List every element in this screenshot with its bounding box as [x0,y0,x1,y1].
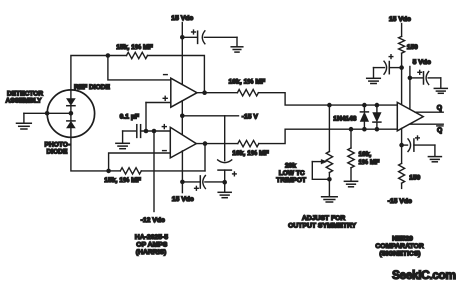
svg-text:DIODE: DIODE [47,148,68,155]
capacitor C6 (V+ bypass) [374,55,402,74]
wire R4 to node B [259,129,398,143]
svg-text:OUTPUT SYMMETRY: OUTPUT SYMMETRY [288,222,357,229]
svg-text:-12 Vdc: -12 Vdc [141,217,165,224]
node photodiode junction [106,169,111,174]
node +15V bottom rail [180,180,185,185]
diode D2 1N4148 (cathode down) [373,105,381,129]
svg-text:10k, 1% MF: 10k, 1% MF [229,79,266,86]
op-amp U2 HA-2625 [170,127,196,158]
svg-text:SeekIC.com: SeekIC.com [392,268,456,282]
resistor R4 10k 1% MF (U2 output) [238,140,259,146]
comparator U3 NE529 [397,102,423,130]
node -15V junction [180,114,185,119]
capacitor C2 0.1uF [123,125,171,138]
svg-text:Q: Q [437,105,442,112]
svg-text:(HARRIS): (HARRIS) [136,249,167,256]
svg-text:NE529: NE529 [392,235,413,242]
svg-text:(SIGNETICS): (SIGNETICS) [379,250,420,257]
node A trimpot junction [327,103,332,108]
wire U2 output [196,143,238,145]
node D2 top [375,103,380,108]
node B 10k junction [349,127,354,132]
svg-text:ADJUST FOR: ADJUST FOR [302,215,346,222]
svg-text:Q: Q [437,127,442,134]
trimpot R5 20k [312,152,332,180]
wire R7 to node [401,53,403,105]
svg-text:10k, 1% MF: 10k, 1% MF [232,150,269,157]
svg-text:20k: 20k [285,162,296,169]
wire output Q bar [410,123,444,125]
photo diode (bottom, cathode up) [67,115,75,137]
node 5V [408,76,413,81]
wire ground to detector center [24,112,71,114]
node comparator V+ [399,65,404,70]
node 15V rail [180,35,185,40]
node ref feedback junction [106,53,111,58]
wire node A down to trimpot [328,105,330,151]
svg-text:OP AMPS: OP AMPS [136,242,167,249]
resistor R8 150 [399,163,405,183]
wire junction up to inverting input [109,153,171,171]
ground (C7) [434,78,447,93]
svg-text:150: 150 [407,44,418,51]
svg-text:1% MF: 1% MF [359,159,380,166]
ground (C8) [428,145,441,162]
capacitor C1 (15V bypass) [182,30,237,44]
resistor R3 15k 1% MF (U2 feedback) [109,168,205,174]
node D2 bottom [375,127,380,132]
wire feedback up to U2 output [204,144,206,171]
U1 plus mark [163,96,167,100]
wire junction down to A1 inverting input [108,56,171,80]
U2 plus mark [162,125,166,129]
wire R2 to node A [258,93,397,105]
wire R1 to A1 output [148,56,205,91]
node bypass junction 1 [144,129,149,134]
wire output Q [415,111,443,113]
U2 minus mark [163,150,167,152]
node bypass junction 2 [152,129,157,134]
wire node B down to R6 [350,129,352,148]
node shared ground junction [222,180,227,185]
wire ref-diode node up and right [71,56,108,90]
ground (top 15V cap) [231,37,243,52]
svg-text:150: 150 [409,174,420,181]
svg-text:COMPARATOR: COMPARATOR [375,243,423,250]
resistor R7 150 [399,36,405,53]
resistor R6 10k 1% MF (to ground) [348,148,354,168]
diode D1 1N4148 (cathode up) [360,105,368,129]
resistor R1 15k 1% MF (A1 feedback) [127,52,148,58]
wire U3 bottom pin to -15V node [401,128,403,163]
node D1 top [362,103,367,108]
svg-text:REF DIODE: REF DIODE [74,84,111,91]
svg-text:15 Vdc: 15 Vdc [172,196,194,203]
svg-text:0.1 µF: 0.1 µF [120,114,139,121]
ground (0.1uF) [116,131,129,149]
node D1 bottom [362,127,367,132]
capacitor C8 (-15V bypass) [402,136,435,152]
node U2 output [203,141,208,146]
node U1 output [202,90,207,95]
capacitor C4 (15V bypass bottom) [182,176,224,191]
wire photodiode to U2 inverting input [71,137,109,171]
ground (bottom shared) [218,182,231,198]
svg-text:ASSEMBLY: ASSEMBLY [6,97,43,104]
ground (R6) [344,181,357,187]
ground (C6) [367,68,381,84]
svg-text:TRIMPOT: TRIMPOT [276,177,306,184]
label Q bar [437,126,443,134]
wire -15V down to C5 [224,116,226,161]
ground (trimpot) [322,179,338,202]
svg-text:LOW TC: LOW TC [279,170,305,177]
wire U1 output [197,92,237,94]
svg-text:-15 Vdc: -15 Vdc [388,198,412,205]
capacitor C7 (5V bypass) [410,70,441,84]
wire U1 non-inverting input [146,102,171,104]
wire 15V to R7 [401,24,403,37]
node detector center junction [69,111,74,116]
wire R8 to -15Vdc [401,183,403,188]
wire stub to 15Vdc label [181,182,183,193]
detector assembly circle [47,90,94,137]
node trimpot bottom [327,177,332,182]
svg-text:15 Vdc: 15 Vdc [171,15,193,22]
svg-text:1N4148: 1N4148 [333,116,356,123]
wire +input down to bypass node [145,103,147,130]
U1 minus mark [164,74,168,76]
wire U1 bottom pin to -15V node [181,101,183,135]
svg-text:15k, 1% MF: 15k, 1% MF [116,44,153,51]
ref diode (top, cathode down) [67,90,75,111]
svg-text:-15 V: -15 V [242,114,259,121]
svg-text:10k,: 10k, [359,151,372,158]
svg-text:15 Vdc: 15 Vdc [389,16,411,23]
node on circle left edge [45,111,50,116]
op-amp U1 HA-2625 [171,78,197,107]
wire 15V supply to U1 top pin [181,23,183,85]
wire junction to R1 [108,55,127,57]
node -15V comparator [399,143,404,148]
wire -12V supply line [153,131,155,212]
ground (detector assembly) [17,113,32,129]
svg-text:5 Vdc: 5 Vdc [413,59,431,66]
resistor R2 10k 1% MF (U1 output) [237,90,258,96]
svg-text:15k, 1% MF: 15k, 1% MF [104,177,141,184]
wire 5V supply stub [409,67,411,110]
capacitor C5 (-15V bypass) [218,160,237,182]
wire U2 bottom pin to +15V [181,151,183,182]
wire R6 to ground [350,168,352,181]
svg-text:HA-2625-5: HA-2625-5 [135,234,168,241]
wire -15V rail [182,115,238,117]
